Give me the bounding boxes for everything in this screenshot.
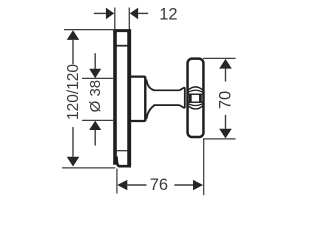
svg-text:12: 12	[159, 6, 177, 24]
svg-text:70: 70	[217, 91, 235, 109]
svg-text:Ø 38: Ø 38	[87, 80, 104, 113]
svg-text:120/120: 120/120	[65, 64, 82, 120]
svg-text:76: 76	[150, 176, 168, 194]
